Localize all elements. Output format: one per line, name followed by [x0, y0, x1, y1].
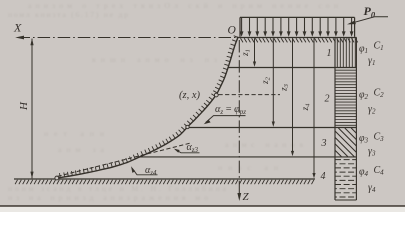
svg-text:3: 3 — [321, 138, 327, 149]
node: point (z,x) on curve — [214, 93, 218, 97]
dimension line z2 — [272, 38, 274, 122]
svg-text:2: 2 — [325, 94, 330, 105]
faint show-through text — [8, 1, 338, 202]
soil column left edge — [334, 38, 336, 201]
dimension line z1 — [254, 38, 256, 62]
dashed secant from slope toe — [58, 143, 191, 176]
page bottom edge — [0, 207, 405, 212]
svg-text:O: O — [228, 25, 237, 37]
bottom ground hatching — [15, 180, 314, 184]
layer boundary 3-4 — [139, 156, 357, 158]
node: curve crossing boundary 2-3 — [186, 125, 189, 128]
bottom ground line — [14, 178, 315, 180]
dimension line z4 — [313, 38, 315, 174]
soil column: layer 4 dashed hatch — [335, 159, 356, 161]
layer boundary 2-3 — [188, 127, 357, 129]
top ground surface line — [237, 37, 357, 39]
svg-text:вншп апмо нз пз: вншп апмо нз пз — [92, 55, 217, 64]
dashed depth line from point (z,x) — [219, 94, 281, 96]
soil column bottom edge — [335, 199, 356, 201]
soil column: layer 2 horizontal hatch — [335, 70, 356, 125]
leader for P0 — [350, 17, 389, 24]
X axis arrowhead — [15, 36, 24, 40]
soil column: layer 3 diagonal hatch — [335, 128, 356, 157]
top surface hatching — [241, 38, 358, 42]
soil column: layer 1 vertical hatch — [337, 38, 355, 67]
node: slope toe — [55, 176, 59, 180]
dimension line z3 — [292, 38, 294, 151]
load block left edge — [239, 17, 241, 36]
slope surface curve — [57, 37, 239, 178]
svg-text:(z, x): (z, x) — [179, 90, 200, 101]
svg-text:H: H — [18, 101, 30, 111]
soil column right edge — [355, 38, 357, 201]
slope curve hatching — [60, 36, 239, 178]
leader for alpha_z3 — [176, 150, 200, 153]
svg-text:4: 4 — [321, 171, 326, 182]
svg-text:1: 1 — [327, 48, 332, 59]
svg-text:X: X — [13, 21, 22, 35]
svg-text:Z: Z — [243, 191, 250, 203]
load arrows — [242, 18, 352, 33]
load block right edge — [354, 17, 356, 36]
leader for alpha_z = phi_pz — [206, 116, 246, 123]
distributed load P0: top line — [240, 16, 355, 18]
dimension line H — [31, 39, 33, 179]
layer boundary 1-2 — [228, 67, 357, 69]
Z axis (dash-dot centreline) — [238, 40, 240, 198]
Z axis arrowhead — [237, 193, 241, 201]
leader for alpha_z4 — [132, 168, 158, 175]
svg-text:помл книзта (6.17) не др: помл книзта (6.17) не др — [8, 10, 128, 19]
X axis (dash-dot centreline) — [18, 37, 238, 39]
